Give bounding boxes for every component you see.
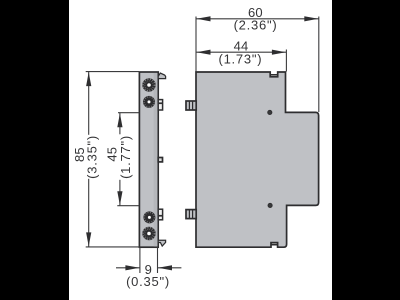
dim45 extension line bottom [117, 205, 139, 207]
right letterbox bar [332, 0, 400, 300]
screw A1 (top large) [142, 78, 155, 91]
front view right-edge shading [154, 73, 158, 246]
svg-text:(3.35"): (3.35") [85, 135, 100, 179]
front view body [139, 72, 158, 247]
lower left fixing tab [186, 210, 196, 219]
dim45 top arrowhead [117, 113, 122, 127]
side view body outline [196, 72, 319, 247]
screw B2 (bottom large) [142, 227, 155, 240]
dim9 right leader line [158, 267, 182, 269]
dim85 top arrowhead [86, 72, 91, 86]
dim9 left arrowhead [125, 265, 139, 270]
dim44 extension line right [285, 50, 287, 72]
bottom release lever [158, 240, 165, 246]
bottom rail-clip crossbar [271, 244, 278, 246]
dim9 extension line right [157, 247, 159, 273]
dim44 right arrowhead [272, 50, 286, 55]
dim45 line upper segment [119, 113, 121, 135]
dim60 right arrowhead [304, 16, 318, 21]
dim9 right arrowhead [158, 265, 172, 270]
dim60 extension line left [195, 17, 197, 72]
dim85 bottom arrowhead [86, 232, 91, 246]
dim60 line [196, 18, 319, 20]
dim45 bottom arrowhead [117, 191, 122, 205]
svg-text:(1.77"): (1.77") [118, 135, 133, 179]
dim85 line lower segment [88, 179, 90, 247]
top rail-clip crossbar [271, 74, 278, 76]
dim85 line upper segment [88, 72, 90, 135]
svg-text:(1.73"): (1.73") [218, 51, 262, 66]
upper right clip tab [158, 100, 162, 110]
left letterbox bar [0, 0, 69, 300]
screw B1 (bottom small) [143, 211, 155, 223]
dim85 extension line top [86, 71, 140, 73]
dim44 left arrowhead [197, 50, 211, 55]
lower pin hole [268, 203, 272, 207]
screw A2 (top small) [143, 96, 155, 108]
dim9 left leader line [116, 267, 140, 269]
lower right clip tab [158, 209, 162, 220]
middle knob [158, 158, 162, 162]
dim60 extension line right [318, 17, 320, 113]
svg-text:(2.36"): (2.36") [234, 17, 278, 32]
dim85 extension line bottom [86, 246, 140, 248]
top release lever [158, 73, 165, 79]
svg-text:(0.35"): (0.35") [126, 274, 170, 289]
dim45 line lower segment [119, 180, 121, 206]
dim60 left arrowhead [197, 16, 211, 21]
upper left fixing tab [186, 101, 196, 110]
upper pin hole [268, 110, 272, 114]
dim9 extension line left [139, 247, 141, 273]
dim44 line [196, 51, 286, 53]
dim45 extension line top [118, 112, 139, 114]
